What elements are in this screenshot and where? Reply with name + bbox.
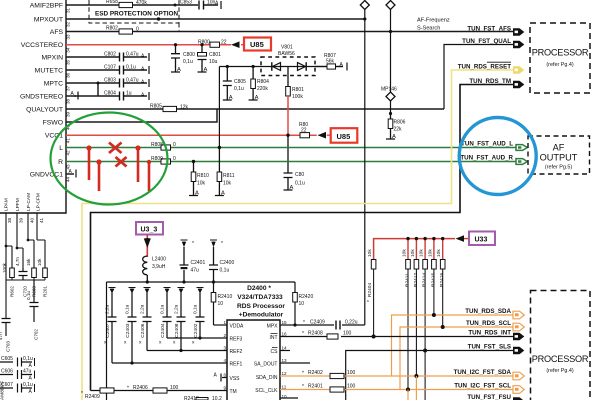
svg-text:2,2u: 2,2u (140, 304, 146, 314)
svg-text:A: A (214, 373, 218, 379)
svg-text:A: A (392, 134, 396, 140)
svg-text:*: * (303, 320, 305, 326)
svg-text:41: 41 (66, 138, 71, 144)
red pullup rail to U33 (374, 239, 455, 259)
capacitor C80 0,1u (284, 135, 305, 191)
svg-text:OUTPUT: OUTPUT (540, 153, 578, 163)
capacitor C702 0,1u (26, 280, 39, 340)
svg-text:0,47u: 0,47u (126, 52, 139, 58)
svg-text:0,1u: 0,1u (26, 291, 31, 300)
resistor R809 0 (151, 156, 176, 164)
svg-text:A: A (177, 67, 181, 73)
svg-text:L: L (59, 145, 63, 152)
svg-text:*: * (302, 371, 304, 377)
red wire VCC1 rail (66, 134, 317, 136)
svg-text:BAW56: BAW56 (278, 51, 295, 57)
label box U3_3 (purple) (136, 222, 163, 235)
svg-text:10k: 10k (410, 249, 416, 257)
svg-text:FSWO: FSWO (43, 120, 63, 127)
resistor R808 0 (151, 142, 176, 150)
svg-text:A: A (255, 95, 259, 101)
bottom pin wires (6, 213, 45, 318)
resistor R2410 10 (211, 282, 232, 325)
svg-text:47u: 47u (191, 268, 200, 274)
svg-text:*: * (302, 384, 304, 390)
svg-text:A: A (29, 389, 33, 395)
svg-text:R2402: R2402 (308, 370, 323, 376)
svg-text:VCCSTEREO: VCCSTEREO (21, 42, 63, 49)
svg-text:0: 0 (173, 156, 176, 162)
svg-text:0,1u: 0,1u (234, 86, 244, 92)
svg-text:REF1: REF1 (230, 362, 243, 368)
svg-text:AF-Frequenz: AF-Frequenz (417, 18, 450, 24)
svg-text:x: x (192, 341, 195, 346)
svg-text:C703: C703 (6, 341, 11, 352)
pin 4 REF1 wire (112, 362, 227, 364)
svg-text:42: 42 (66, 150, 71, 156)
wire TUN_I2C_FST_SDA (orange, pin 12) (280, 375, 330, 377)
wire MPTC to GNDSTEREO junction (97, 83, 99, 96)
resistor R2409 (81, 388, 114, 400)
svg-text:x: x (173, 341, 176, 346)
wire QUALYOUT (66, 108, 444, 110)
svg-text:11: 11 (282, 385, 287, 390)
svg-text:MPXOUT: MPXOUT (34, 17, 63, 24)
capacitor C853 10n (180, 0, 221, 10)
svg-text:PROCESSOR: PROCESSOR (532, 48, 589, 58)
diode V801b (298, 63, 306, 71)
green wire R (66, 161, 516, 163)
IC left pin names (230, 324, 245, 396)
svg-text:C800: C800 (183, 52, 195, 58)
svg-text:LP-CAM: LP-CAM (26, 193, 32, 211)
svg-text:RDS Processor: RDS Processor (237, 303, 285, 310)
svg-text:38: 38 (7, 217, 12, 223)
capacitor C2400 0,1u (209, 240, 234, 282)
connector TUN_FST_SLS (513, 347, 524, 355)
svg-text:39: 39 (19, 217, 24, 223)
svg-text:R201: R201 (43, 286, 48, 297)
svg-text:TUN_I2C_FST_SCL: TUN_I2C_FST_SCL (454, 383, 511, 390)
svg-text:R658: R658 (106, 0, 118, 5)
svg-text:TUN_RDS_RESET: TUN_RDS_RESET (458, 64, 512, 71)
svg-text:SCL_CLK: SCL_CLK (255, 388, 278, 394)
connector TUN_FST_AFS (513, 28, 524, 36)
resistor R801 100k (286, 67, 304, 101)
svg-text:9: 9 (223, 386, 226, 391)
svg-text:39: 39 (66, 111, 71, 117)
resistor R2405 100 (302, 331, 352, 340)
svg-text:C607: C607 (1, 382, 13, 388)
svg-text:10: 10 (299, 301, 305, 307)
svg-text:R602: R602 (10, 286, 15, 297)
svg-text:R811: R811 (223, 173, 235, 179)
svg-text:10k: 10k (436, 249, 442, 257)
svg-text:40: 40 (30, 217, 35, 223)
svg-text:TUN_RDS_SDA: TUN_RDS_SDA (465, 308, 511, 315)
svg-text:INT: INT (269, 335, 277, 341)
svg-text:LPFM: LPFM (15, 198, 21, 211)
connector TUN_RDS_RESET (yellow) (513, 66, 524, 74)
label box U85 (lower) (331, 128, 358, 143)
svg-text:100: 100 (170, 385, 179, 391)
svg-text:R: R (58, 159, 63, 166)
svg-text:0,22u: 0,22u (345, 320, 358, 326)
red wire from R801 to VCC1 rail (287, 96, 289, 135)
svg-text:V324/TDA7333: V324/TDA7333 (237, 294, 283, 301)
resistor R2402 100 (302, 370, 356, 379)
svg-text:4: 4 (223, 358, 226, 363)
svg-text:R2406: R2406 (133, 385, 148, 391)
svg-text:L2400: L2400 (152, 257, 166, 263)
resistor R2420 10 (to MPX) (293, 282, 314, 327)
svg-text:R2409: R2409 (85, 394, 100, 400)
svg-text:14: 14 (282, 346, 288, 351)
pin 9 TM wire with R2406 / R2409 (91, 390, 228, 392)
svg-text:U85: U85 (337, 132, 351, 141)
wire TUN_RDS_SCL (orange) (400, 327, 513, 390)
PROCESSOR dashed box (top) (530, 23, 590, 93)
svg-text:TUN_FST_SLS: TUN_FST_SLS (468, 344, 511, 351)
wire AMIF2BPF (66, 4, 198, 6)
bottom left cap row 2: C606 47u (0, 369, 35, 382)
svg-text:C2407: C2407 (105, 323, 111, 337)
pin 6 VSS ground (214, 373, 228, 382)
svg-text:R804: R804 (257, 79, 269, 85)
svg-text:A: A (290, 185, 294, 191)
svg-text:22: 22 (221, 40, 227, 46)
pin 2 REF3 wire (167, 337, 227, 339)
svg-text:A: A (195, 191, 199, 197)
wire TUN_I2C_FST_SCL (orange, pin 11) (280, 389, 330, 391)
svg-text:GNDSTEREO: GNDSTEREO (20, 94, 63, 101)
IC bottom pin names (rotated) (4, 193, 42, 211)
svg-text:CS: CS (271, 349, 279, 355)
wire MPTC (66, 82, 147, 84)
wire TUN_RDS_RESET (yellow) (82, 70, 513, 400)
label box U33 (purple) (469, 232, 495, 246)
pin 3 REF2 wire (147, 350, 227, 352)
svg-text:R2401: R2401 (308, 384, 323, 390)
svg-text:A: A (215, 1, 219, 7)
svg-text:22k: 22k (394, 127, 403, 133)
connector TUN_RDS_TM (513, 81, 524, 89)
capacitor C804 1u (104, 91, 149, 101)
connector TUN_RDS_INT (513, 333, 524, 341)
connector TUN_RDS_SCL (orange) (513, 323, 524, 331)
svg-text:C853: C853 (180, 0, 192, 6)
bus left drop (106, 282, 108, 400)
svg-text:C605: C605 (1, 356, 13, 362)
svg-text:12: 12 (282, 371, 288, 376)
pin 10 stub (280, 397, 298, 399)
svg-text:10k: 10k (427, 249, 433, 257)
svg-text:0: 0 (136, 27, 139, 33)
IC left pin numbers (223, 320, 226, 391)
svg-text:10k: 10k (37, 258, 42, 266)
svg-text:MP146: MP146 (381, 87, 397, 93)
svg-text:6: 6 (223, 373, 226, 378)
svg-text:S-Search: S-Search (417, 26, 440, 32)
resistor R2404 10k (367, 249, 376, 337)
svg-text:MPXIN: MPXIN (41, 55, 63, 62)
svg-text:C107: C107 (104, 65, 116, 71)
svg-text:10k: 10k (402, 249, 408, 257)
svg-text:100: 100 (343, 331, 352, 337)
svg-text:A: A (204, 67, 208, 73)
red markup stub 3 on L (137, 148, 140, 182)
wire pin40 LP-CAM (28, 213, 34, 268)
svg-text:C801: C801 (209, 52, 221, 58)
svg-text:*: * (192, 241, 194, 247)
svg-text:R2408: R2408 (308, 331, 323, 337)
svg-text:R2404: R2404 (367, 283, 373, 297)
wire FSWO (66, 109, 217, 122)
svg-text:TUN_FST_AFS: TUN_FST_AFS (467, 26, 511, 33)
wire TUN_RDS_INT (280, 336, 513, 338)
blue annotation circle (459, 118, 536, 195)
arrow to U33 (456, 235, 465, 242)
svg-text:41: 41 (39, 217, 44, 223)
long vertical MPXOUT to MPX (C2409) (364, 9, 366, 325)
svg-text:MUTETC: MUTETC (35, 68, 63, 75)
svg-text:SA_DOUT: SA_DOUT (254, 362, 278, 368)
svg-text:10k: 10k (419, 249, 425, 257)
left cluster bus (6, 279, 45, 281)
arrow to U85 (231, 41, 240, 48)
svg-text:10k: 10k (223, 181, 232, 187)
svg-text:13: 13 (282, 358, 288, 363)
svg-text:2,2u: 2,2u (174, 304, 180, 314)
connector TUN_FST_AUD_R (green) (516, 159, 527, 165)
svg-text:33: 33 (66, 34, 71, 40)
svg-text:35: 35 (66, 59, 71, 65)
junction dot AMIF2BPF (174, 4, 177, 7)
svg-text:C804: C804 (104, 91, 116, 97)
svg-text:AF: AF (553, 143, 565, 153)
svg-text:A: A (221, 191, 225, 197)
svg-text:0,1u: 0,1u (126, 65, 136, 71)
SA_DOUT stub (280, 362, 310, 364)
svg-text:QUALYOUT: QUALYOUT (26, 107, 63, 114)
arrow down from U3_3 (144, 238, 151, 248)
svg-text:TM: TM (230, 389, 237, 395)
svg-text:REF3: REF3 (230, 337, 243, 343)
svg-text:TUN_I2C_FST_SDA: TUN_I2C_FST_SDA (454, 369, 512, 376)
svg-text:AMIF2BPF: AMIF2BPF (30, 3, 63, 10)
capacitor C2403 0,1u (128, 293, 137, 364)
capacitor C2408 2,2u (177, 293, 186, 351)
wire TUN_RDS_SDA (orange) (392, 315, 514, 376)
capacitor C2407 2,2u (108, 293, 117, 364)
capacitor C2404 0,1u (163, 293, 172, 339)
svg-text:38: 38 (66, 98, 71, 104)
pullup drops (408, 269, 443, 400)
test point diamond on MPXOUT (360, 1, 369, 10)
wire TUN_RDS_TM (black) (91, 85, 514, 391)
red X mark on L (109, 143, 122, 154)
svg-text:0,1u: 0,1u (160, 304, 166, 314)
IC right pin numbers (282, 320, 288, 399)
svg-text:0,1u: 0,1u (23, 356, 33, 362)
svg-text:ESD PROTECTION OPTION: ESD PROTECTION OPTION (95, 11, 178, 18)
IC right pin names (254, 324, 278, 395)
svg-text:x: x (159, 341, 162, 346)
svg-text:REF2: REF2 (230, 349, 243, 355)
resistor R805 12k (150, 103, 189, 111)
svg-text:47n: 47n (0, 332, 3, 340)
connector TUN_I2C_FST_SDA (orange) (513, 372, 524, 380)
red markup stub 2 on R (98, 162, 101, 191)
resistor R807 56k (315, 53, 347, 71)
resistor R658 470k (106, 0, 147, 8)
svg-text:10u: 10u (209, 59, 218, 65)
svg-text:GNDVCC1: GNDVCC1 (30, 172, 63, 179)
ESD protection option dashed box (89, 0, 179, 31)
cap row rotated value labels (105, 304, 199, 314)
svg-text:TUN_RDS_SCL: TUN_RDS_SCL (466, 320, 511, 327)
resistor R2406 100 (127, 385, 179, 393)
cap row rotated ref labels (104, 323, 199, 345)
svg-text:x: x (124, 341, 127, 346)
svg-text:R805: R805 (150, 103, 162, 109)
svg-text:100k: 100k (2, 262, 7, 273)
svg-text:22: 22 (301, 128, 307, 134)
resistor R804 220k (249, 65, 270, 101)
svg-text:(refer Pg.4): (refer Pg.4) (546, 62, 573, 68)
resistor R603 16k (26, 258, 37, 297)
svg-text:*: * (302, 331, 304, 337)
svg-text:(refer Pg.5): (refer Pg.5) (545, 165, 572, 171)
capacitor C802 0,47u (104, 52, 149, 62)
svg-text:*: * (221, 241, 223, 247)
connector TUN_FST_QUAL (513, 41, 524, 49)
connector TUN_FST_AUD_L (green) (516, 145, 527, 151)
svg-text:A: A (229, 95, 233, 101)
capacitor C2409 0,22u (303, 320, 358, 330)
wire MPXIN (66, 56, 147, 58)
svg-text:(refer Pg.4): (refer Pg.4) (546, 368, 573, 374)
svg-text:VSS: VSS (230, 376, 241, 382)
svg-text:AFS: AFS (50, 29, 64, 36)
svg-text:100: 100 (347, 384, 356, 390)
svg-text:0,47u: 0,47u (126, 78, 139, 84)
capacitor C2401 47u (elco) (180, 240, 206, 282)
AF OUTPUT dashed box (528, 136, 590, 174)
svg-text:TUN_FST_AUD_L: TUN_FST_AUD_L (461, 141, 513, 148)
IC D2400 RDS processor box (227, 320, 280, 400)
svg-text:V801: V801 (281, 45, 293, 51)
svg-text:TUN_FST_QUAL: TUN_FST_QUAL (462, 38, 511, 45)
svg-text:3,9uH: 3,9uH (152, 264, 166, 270)
svg-text:0,1u: 0,1u (23, 382, 33, 388)
capacitor C2406 2,2u (143, 293, 152, 351)
svg-text:100k: 100k (292, 94, 303, 100)
svg-text:34: 34 (66, 47, 71, 53)
svg-text:LPAM: LPAM (4, 198, 10, 211)
svg-text:C2408: C2408 (174, 323, 180, 337)
svg-text:1u: 1u (126, 91, 132, 97)
svg-text:15: 15 (282, 320, 288, 325)
diode V801a (273, 63, 281, 71)
bottom left cap row 3: C607 0,1u (0, 382, 35, 395)
svg-text:MPX: MPX (267, 324, 279, 330)
resistor R810 10k (189, 160, 209, 197)
AFS test point vertical (390, 9, 392, 114)
svg-text:36: 36 (66, 72, 71, 78)
svg-text:x: x (139, 341, 142, 346)
pin 1 VDDA wire (214, 324, 228, 326)
svg-text:2,2u: 2,2u (105, 304, 111, 314)
resistor R201 10k (37, 258, 48, 297)
svg-text:LP-CFM: LP-CFM (36, 193, 42, 211)
svg-text:1: 1 (223, 320, 226, 325)
green annotation ellipse (51, 113, 168, 205)
IC pin labels left column (20, 3, 64, 179)
svg-text:C2404: C2404 (160, 323, 166, 337)
resistor R602 100k (2, 246, 15, 297)
svg-text:R802: R802 (106, 26, 118, 32)
svg-text:+Demodulator: +Demodulator (239, 312, 284, 319)
svg-text:0,1u: 0,1u (220, 268, 230, 274)
svg-text:A: A (29, 376, 33, 382)
svg-text:C2400: C2400 (220, 260, 235, 266)
svg-text:0,1u: 0,1u (193, 304, 199, 314)
svg-text:16k: 16k (26, 258, 31, 266)
svg-text:4,7n: 4,7n (15, 257, 20, 266)
svg-text:32: 32 (66, 21, 71, 27)
wire MPXOUT (66, 18, 364, 20)
capacitor C720 4,7n (15, 257, 28, 297)
red markup stub 1 on L (89, 148, 149, 191)
svg-text:R2420: R2420 (299, 294, 314, 300)
wire TUN_FST_SLS (346, 351, 513, 400)
svg-text:0,1u: 0,1u (183, 59, 193, 65)
svg-text:C2401: C2401 (191, 260, 206, 266)
resistor R80 22 (299, 122, 310, 138)
svg-text:R808: R808 (151, 142, 163, 148)
svg-text:10.2: 10.2 (212, 396, 222, 400)
capacitor C703 47n (0, 319, 11, 353)
svg-text:100: 100 (347, 370, 356, 376)
svg-text:0,1u: 0,1u (125, 304, 131, 314)
label box U85 (244, 38, 271, 51)
wire pin39 LPFM (17, 213, 23, 268)
svg-text:U85: U85 (250, 40, 264, 49)
svg-text:56k: 56k (326, 59, 335, 65)
svg-text:R2410: R2410 (218, 294, 233, 300)
PROCESSOR dashed box (bottom) (531, 291, 591, 400)
junction dot MPTC/GNDSTEREO (97, 82, 100, 85)
arrow to U85 (lower) (318, 132, 327, 139)
IC U601 tuner block right edge (0, 0, 66, 213)
svg-text:R810: R810 (197, 173, 209, 179)
svg-text:16: 16 (282, 332, 288, 337)
capacitor C800 0,1u (171, 43, 195, 73)
green wire L (66, 147, 516, 149)
svg-text:C2402: C2402 (193, 323, 199, 337)
CS stub (280, 350, 290, 352)
red feed segment (146, 235, 148, 258)
resistor R806 22k (386, 114, 406, 141)
connector TUN_RDS_SDA (orange) (513, 311, 524, 319)
svg-text:TUN_RDS_INT: TUN_RDS_INT (468, 330, 511, 337)
svg-text:*: * (81, 391, 83, 397)
wire pin38 LPAM (5, 213, 7, 318)
supply bus (107, 281, 296, 283)
svg-text:0,1u: 0,1u (295, 181, 305, 187)
svg-text:TUN_RDS_TM: TUN_RDS_TM (469, 78, 511, 85)
